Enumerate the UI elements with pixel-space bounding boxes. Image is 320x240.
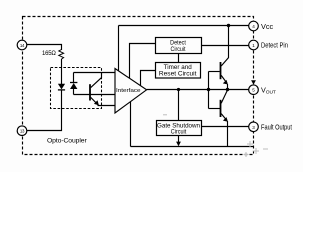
svg-text:5: 5	[252, 88, 255, 93]
transistor Q3 collector with arrow to bottom rail	[221, 114, 228, 147]
svg-text:Interface: Interface	[116, 88, 141, 94]
transistor Q2 collector to Vcc rail	[221, 26, 228, 67]
interface amplifier triangle	[115, 69, 147, 114]
bottom rail	[131, 146, 254, 148]
wire timer circuit to interface	[141, 71, 156, 88]
wire gate shutdown to fault output pin	[202, 126, 249, 128]
phototransistor Q1 base bar	[89, 84, 91, 100]
svg-text:1: 1	[252, 43, 255, 48]
gate shutdown circuit block	[157, 121, 202, 136]
wire interface VEE to bottom rail	[130, 100, 132, 147]
transistor Q2 emitter with arrow to Vout	[221, 75, 228, 89]
junction dot gate-shutdown tap	[177, 88, 180, 91]
wire gate shutdown to bottom rail with arrow	[176, 136, 181, 147]
junction dot Vcc/collector	[227, 24, 230, 27]
pin 5 Vout	[249, 85, 259, 95]
svg-text:Circuit: Circuit	[171, 46, 186, 53]
detect circuit block	[156, 38, 202, 54]
svg-text:3: 3	[252, 125, 255, 130]
transistor Q3 emitter to Vout node	[221, 90, 227, 103]
resistor 165ohm (zigzag)	[59, 50, 64, 60]
svg-text:Vcc: Vcc	[261, 22, 274, 31]
LED D1 (input diode, cathode down)	[58, 84, 65, 90]
svg-text:Detect Pin: Detect Pin	[261, 41, 288, 50]
svg-text:Reset Circuit: Reset Circuit	[159, 71, 197, 78]
wire detect circuit to interface	[130, 44, 156, 81]
Vcc rail top	[119, 25, 249, 27]
base node line to interface	[74, 94, 115, 96]
wire pin2 to resistor	[27, 45, 62, 51]
wire photodiode cathode to upper rail	[73, 73, 75, 83]
photodiode D2 (cathode up)	[70, 83, 77, 90]
wire LED cathode to pin3	[27, 90, 62, 131]
transistor Q2 base bar	[220, 62, 222, 79]
Vcc rail vertical into interface	[118, 26, 120, 75]
pin 3 fault output	[249, 122, 259, 132]
phototransistor Q1 collector	[91, 73, 102, 88]
phototransistor Q1 emitter with arrow	[91, 97, 99, 105]
output line from interface apex (Vout line)	[147, 89, 249, 91]
pin 13 LED cathode	[17, 126, 27, 136]
wire Vout line to gate shutdown	[178, 90, 180, 121]
svg-text:Circuit: Circuit	[171, 129, 187, 136]
emitter line to interface lower input	[98, 105, 116, 107]
svg-text:Fault Output: Fault Output	[261, 123, 292, 132]
package outline (dashed IC boundary)	[23, 17, 254, 155]
svg-text:165Ω: 165Ω	[42, 51, 56, 57]
arrowhead detect-pin to Vout node	[251, 80, 256, 84]
watermark marks	[163, 115, 268, 157]
timer and reset circuit block	[156, 63, 201, 79]
transistor Q3 base bar	[220, 100, 222, 117]
upper base line	[209, 71, 220, 73]
pin 4 Vcc	[249, 21, 259, 31]
junction dot base drive	[207, 88, 210, 91]
wire detect circuit to detect pin	[202, 45, 249, 47]
wire detect to timer	[178, 53, 180, 63]
lower base line	[209, 108, 221, 110]
upper rail into interface	[74, 72, 116, 74]
pin 1 detect	[249, 40, 259, 50]
pin 14 LED anode	[17, 40, 27, 50]
svg-text:4: 4	[252, 24, 255, 29]
junction dot emitters	[226, 88, 229, 91]
svg-text:Opto-Coupler: Opto-Coupler	[47, 137, 87, 144]
base tie line vertical	[208, 72, 210, 109]
wire resistor to LED anode	[61, 59, 63, 84]
wire photodiode anode down to base node	[73, 89, 75, 95]
opto-coupler dashed box	[51, 68, 102, 109]
